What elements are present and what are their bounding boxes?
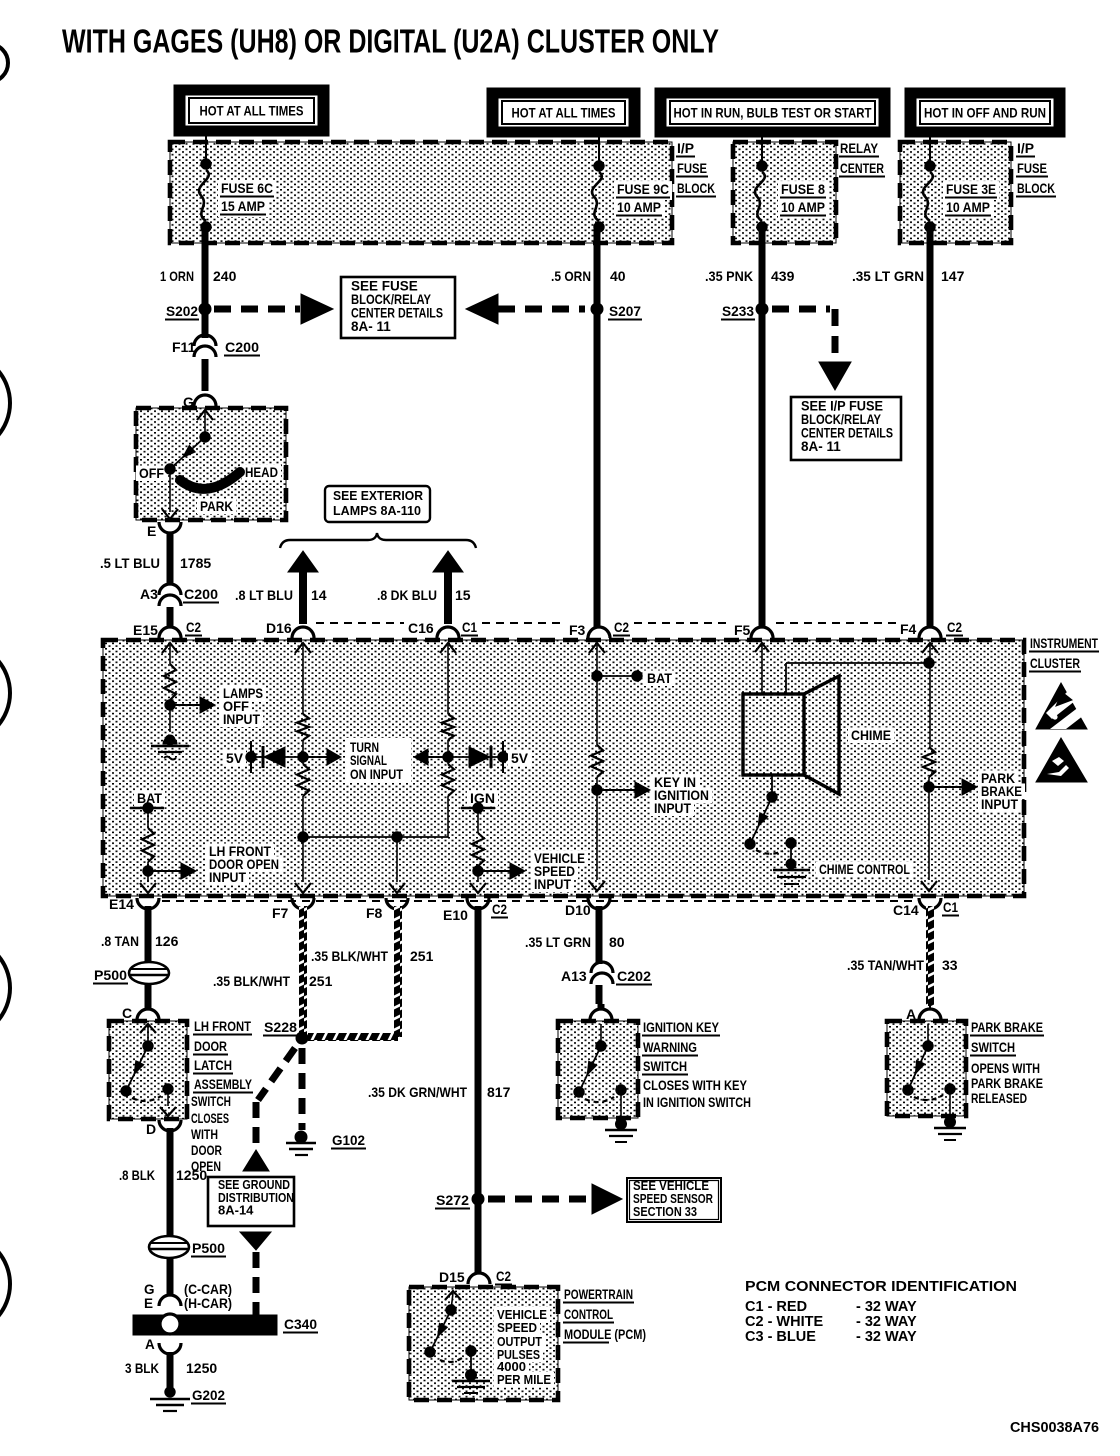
5V node right: [498, 752, 508, 762]
svg-text:- 32 WAY: - 32 WAY: [856, 1299, 917, 1315]
svg-text:OPENS WITH: OPENS WITH: [971, 1061, 1040, 1076]
svg-text:LH FRONT: LH FRONT: [194, 1019, 252, 1034]
wire into fuse 3E: [929, 137, 931, 166]
wire into fuse 9C: [598, 137, 600, 166]
ignition key contacts: [600, 1024, 602, 1046]
svg-text:C1 - RED: C1 - RED: [745, 1299, 807, 1315]
dashed arrow S207 to ref box: [466, 294, 498, 324]
resistor E10 branch: [472, 833, 484, 866]
svg-text:10 AMP: 10 AMP: [946, 199, 990, 215]
svg-text:MODULE (PCM): MODULE (PCM): [564, 1327, 646, 1342]
svg-text:1250: 1250: [176, 1167, 207, 1183]
label CHIME CONTROL: [816, 861, 913, 877]
svg-text:1 ORN: 1 ORN: [160, 268, 194, 284]
wire E to C200 A3: [167, 532, 174, 585]
svg-text:G: G: [144, 1282, 155, 1297]
svg-text:C200: C200: [225, 339, 259, 355]
svg-text:.35 PNK: .35 PNK: [705, 268, 753, 284]
svg-text:IN IGNITION SWITCH: IN IGNITION SWITCH: [643, 1095, 751, 1110]
svg-text:HOT IN OFF AND RUN: HOT IN OFF AND RUN: [924, 105, 1046, 121]
D16 5V junction: [298, 752, 308, 762]
svg-text:C1: C1: [462, 619, 477, 635]
svg-text:RELEASED: RELEASED: [971, 1091, 1027, 1106]
wire to E10: [477, 871, 479, 882]
svg-text:C340: C340: [284, 1316, 317, 1332]
svg-text:33: 33: [942, 957, 958, 973]
svg-text:SECTION 33: SECTION 33: [633, 1205, 697, 1219]
svg-text:.8 TAN: .8 TAN: [101, 933, 139, 949]
svg-text:D16: D16: [266, 620, 292, 636]
resistor D16 lower: [302, 757, 304, 764]
label LAMPS OFF INPUT: [220, 685, 266, 701]
svg-text:F7: F7: [272, 905, 289, 921]
thin dashed connector line C1-F3: [482, 622, 564, 624]
ESD warning symbol 1: [1036, 683, 1087, 729]
svg-text:F3: F3: [569, 622, 586, 638]
svg-text:PARK: PARK: [200, 499, 233, 514]
PCM internal ground: [466, 1370, 477, 1381]
connector C340 pass-through ring: [160, 1314, 180, 1334]
resistor F3: [591, 745, 603, 777]
svg-text:439: 439: [771, 268, 795, 284]
svg-text:P500: P500: [94, 967, 127, 983]
svg-text:251: 251: [309, 973, 333, 989]
svg-text:.8 BLK: .8 BLK: [119, 1167, 155, 1183]
svg-text:PARK BRAKE: PARK BRAKE: [971, 1076, 1043, 1091]
LH door latch switch box: [109, 1021, 187, 1119]
svg-text:F11: F11: [172, 339, 196, 355]
svg-text:SEE VEHICLE: SEE VEHICLE: [633, 1179, 709, 1193]
dashed arrow S272 to ref box: [488, 1196, 588, 1203]
ESD warning symbol 2: [1036, 738, 1087, 782]
up arrow wire .8 DK BLU 15: [444, 570, 452, 624]
svg-text:CLOSES WITH KEY: CLOSES WITH KEY: [643, 1078, 747, 1093]
svg-text:G102: G102: [332, 1132, 365, 1148]
svg-text:D: D: [146, 1121, 156, 1137]
svg-text:DOOR: DOOR: [194, 1039, 227, 1054]
svg-text:C2: C2: [186, 619, 201, 635]
svg-text:E10: E10: [443, 907, 468, 923]
BAT node F3: [592, 671, 602, 681]
svg-text:CENTER: CENTER: [840, 161, 884, 176]
wire fuse 3E down to F4: [927, 227, 934, 622]
svg-text:126: 126: [155, 933, 179, 949]
vehicle speed node: [473, 866, 483, 876]
svg-text:.8 DK BLU: .8 DK BLU: [377, 587, 437, 603]
svg-text:CLOSES: CLOSES: [191, 1111, 229, 1126]
svg-text:40: 40: [610, 268, 626, 284]
svg-text:E: E: [147, 523, 156, 539]
power label HOT AT ALL TIMES (left): [174, 85, 329, 136]
label CHIME: [848, 727, 894, 743]
svg-text:LATCH: LATCH: [194, 1058, 232, 1073]
svg-text:INPUT: INPUT: [223, 712, 261, 727]
svg-text:A: A: [145, 1337, 155, 1352]
wire S207 to F3: [594, 309, 601, 628]
chime control switch: [771, 775, 773, 797]
svg-text:S202: S202: [166, 303, 198, 319]
svg-text:D15: D15: [439, 1269, 465, 1285]
svg-text:FUSE 6C: FUSE 6C: [221, 180, 273, 196]
dashed line S228 to ground distribution: [258, 1048, 295, 1100]
svg-text:POWERTRAIN: POWERTRAIN: [564, 1287, 633, 1302]
brace over exterior lamp wires: [280, 533, 476, 548]
IGN feed: [467, 790, 498, 806]
ref box SEE FUSE BLOCK/RELAY CENTER DETAILS 8A-11: [341, 277, 455, 338]
arrow into C16 node: [426, 756, 446, 758]
junction bus D16-F8-C16: [303, 836, 448, 838]
ref box SEE EXTERIOR LAMPS 8A-110: [325, 486, 430, 522]
svg-text:F8: F8: [366, 905, 383, 921]
svg-text:CHIME: CHIME: [851, 728, 891, 743]
headlight switch positions OFF HEAD PARK: [136, 465, 167, 481]
dashed arrow S233 right and down: [772, 306, 830, 313]
svg-text:HOT AT ALL TIMES: HOT AT ALL TIMES: [512, 105, 616, 121]
svg-text:15 AMP: 15 AMP: [221, 198, 265, 214]
svg-text:PCM CONNECTOR IDENTIFICATION: PCM CONNECTOR IDENTIFICATION: [745, 1279, 1017, 1295]
fuse 6C: [201, 159, 211, 169]
svg-text:WARNING: WARNING: [643, 1040, 697, 1055]
svg-text:E: E: [144, 1296, 153, 1311]
svg-text:3 BLK: 3 BLK: [125, 1360, 159, 1376]
ground below ignition switch: [616, 1119, 627, 1130]
diode right: [469, 747, 490, 767]
connector P500 lower: [149, 1236, 189, 1258]
thin dashed connector line F3-F5: [634, 622, 730, 624]
fuse 3E: [925, 161, 935, 171]
svg-text:I/P: I/P: [677, 141, 694, 156]
wire to E14: [147, 871, 149, 882]
svg-text:A3: A3: [140, 586, 158, 602]
arrow out of ground distribution box: [240, 1232, 271, 1250]
power label HOT IN OFF AND RUN: [905, 88, 1065, 137]
instrument cluster box: [103, 640, 1024, 896]
resistor LH door branch: [142, 828, 154, 862]
svg-text:.5 LT BLU: .5 LT BLU: [100, 555, 160, 571]
C16 branch top: [440, 643, 456, 653]
svg-text:INPUT: INPUT: [534, 877, 572, 892]
up arrow wire .8 LT BLU 14: [299, 570, 307, 624]
svg-text:INSTRUMENT: INSTRUMENT: [1030, 636, 1099, 651]
svg-text:C2: C2: [496, 1268, 511, 1284]
svg-text:C3 - BLUE: C3 - BLUE: [745, 1329, 816, 1345]
svg-text:FUSE: FUSE: [1017, 161, 1047, 176]
svg-text:C200: C200: [184, 586, 218, 602]
svg-text:E15: E15: [133, 622, 158, 638]
svg-text:SPEED: SPEED: [497, 1320, 537, 1335]
svg-text:SEE EXTERIOR: SEE EXTERIOR: [333, 488, 424, 503]
5V node left: [223, 750, 246, 766]
svg-text:LAMPS 8A-110: LAMPS 8A-110: [333, 503, 421, 518]
svg-text:HOT AT ALL TIMES: HOT AT ALL TIMES: [200, 103, 304, 119]
label VEHICLE SPEED OUTPUT PULSES 4000 PER MILE: [494, 1307, 550, 1322]
svg-text:.8 LT BLU: .8 LT BLU: [235, 587, 293, 603]
ref box SEE I/P FUSE BLOCK/RELAY CENTER DETAILS 8A-11: [791, 397, 901, 460]
svg-text:CLUSTER: CLUSTER: [1030, 656, 1080, 671]
svg-text:SWITCH: SWITCH: [971, 1040, 1015, 1055]
svg-text:14: 14: [311, 587, 327, 603]
svg-text:817: 817: [487, 1084, 511, 1100]
LH front door open node: [143, 866, 153, 876]
svg-text:INPUT: INPUT: [209, 870, 247, 885]
park brake switch box: [887, 1021, 966, 1116]
striped wire C14 to park brake: [926, 906, 934, 1006]
diode left: [262, 746, 265, 768]
wire into fuse 6C: [205, 136, 207, 164]
arrow into ground distribution box: [243, 1150, 269, 1171]
svg-text:BLOCK: BLOCK: [677, 181, 715, 196]
svg-text:10 AMP: 10 AMP: [617, 199, 661, 215]
wire to D10: [596, 790, 598, 880]
svg-text:15: 15: [455, 587, 471, 603]
svg-text:IGNITION KEY: IGNITION KEY: [643, 1020, 719, 1035]
label VEHICLE SPEED INPUT: [531, 850, 588, 866]
svg-text:(C-CAR): (C-CAR): [184, 1282, 232, 1297]
door latch contacts: [140, 1024, 156, 1033]
svg-text:- 32 WAY: - 32 WAY: [856, 1329, 917, 1345]
svg-text:PARK BRAKE: PARK BRAKE: [971, 1020, 1043, 1035]
dashed line to C340: [253, 1252, 260, 1315]
binder hole 2: [0, 353, 10, 453]
svg-text:SWITCH: SWITCH: [191, 1094, 231, 1109]
svg-text:.5 ORN: .5 ORN: [551, 268, 591, 284]
svg-text:C2: C2: [492, 901, 507, 917]
svg-text:S272: S272: [436, 1192, 469, 1208]
dashed arrow S202 to ref box: [214, 306, 300, 313]
binder hole 3: [0, 643, 10, 743]
wire fuse 9C to S207: [594, 227, 601, 309]
chime speaker: [743, 694, 804, 775]
ground below park brake switch: [945, 1117, 956, 1128]
svg-text:ON INPUT: ON INPUT: [350, 767, 404, 782]
headlight switch contacts: [197, 410, 213, 420]
binder hole 5: [0, 1234, 10, 1334]
park brake contacts: [927, 1024, 929, 1046]
wire S233 to F5: [759, 309, 766, 628]
dashed line S228 to G102: [299, 1048, 306, 1130]
svg-text:E14: E14: [109, 896, 134, 912]
fuse 9C: [594, 161, 604, 171]
ground G102: [295, 1131, 307, 1143]
svg-text:5V: 5V: [511, 751, 528, 766]
ground lamps off: [163, 737, 177, 744]
svg-text:OFF: OFF: [139, 466, 164, 481]
striped wire F7 to S228: [299, 906, 307, 1035]
svg-text:DOOR: DOOR: [191, 1143, 222, 1158]
wire fuse 8 to S233: [759, 227, 766, 309]
svg-text:WITH GAGES (UH8) OR DIGITAL (U: WITH GAGES (UH8) OR DIGITAL (U2A) CLUSTE…: [62, 23, 719, 60]
resistor C16 lower: [447, 757, 449, 764]
power label HOT IN RUN BULB TEST OR START: [655, 88, 890, 137]
svg-text:CHIME CONTROL: CHIME CONTROL: [819, 862, 910, 877]
svg-text:D10: D10: [565, 902, 591, 918]
connector C200 F11: [202, 309, 209, 338]
PCM vehicle speed switch: [445, 1291, 461, 1300]
resistor C16 upper: [442, 714, 454, 740]
binder hole top-left: [0, 44, 8, 82]
svg-text:P500: P500: [192, 1240, 225, 1256]
svg-text:C2: C2: [614, 619, 629, 635]
ref box SEE VEHICLE SPEED SENSOR SECTION 33: [627, 1178, 721, 1222]
relay center box: [733, 142, 836, 243]
svg-text:8A- 11: 8A- 11: [351, 319, 391, 334]
key in ignition node: [592, 785, 602, 795]
svg-text:PER MILE: PER MILE: [497, 1372, 551, 1387]
power label HOT AT ALL TIMES (mid): [487, 88, 640, 137]
svg-text:147: 147: [941, 268, 965, 284]
ground chime control: [786, 859, 796, 869]
striped wire F8 to S228: [394, 906, 402, 1037]
svg-text:HOT IN RUN, BULB TEST OR START: HOT IN RUN, BULB TEST OR START: [674, 105, 872, 121]
lamps off input branch: [162, 643, 178, 653]
I/P fuse block box (left): [170, 142, 672, 243]
svg-text:5V: 5V: [226, 751, 243, 766]
svg-text:.35 LT GRN: .35 LT GRN: [852, 268, 924, 284]
D16 branch top: [295, 643, 311, 653]
svg-text:(H-CAR): (H-CAR): [184, 1296, 232, 1311]
thin dashed connector line bottom: [162, 900, 916, 902]
svg-text:FUSE 8: FUSE 8: [781, 181, 825, 197]
svg-text:.35 TAN/WHT: .35 TAN/WHT: [847, 957, 924, 973]
label PARK BRAKE INPUT: [978, 770, 1018, 786]
BAT feed left: [134, 790, 165, 806]
svg-text:S228: S228: [264, 1019, 297, 1035]
ground G202: [165, 1387, 175, 1397]
headlight switch box: [136, 408, 286, 520]
svg-text:A13: A13: [561, 968, 587, 984]
svg-text:8A- 11: 8A- 11: [801, 439, 841, 454]
svg-text:G202: G202: [192, 1387, 225, 1403]
PCM box: [409, 1287, 558, 1400]
F5 branch top: [755, 643, 769, 652]
svg-text:BLOCK: BLOCK: [1017, 181, 1055, 196]
svg-text:FUSE: FUSE: [677, 161, 707, 176]
thin dashed connector line F5-F4: [776, 622, 896, 624]
svg-text:SIGNAL: SIGNAL: [350, 753, 387, 768]
svg-text:WITH: WITH: [191, 1127, 218, 1142]
svg-text:240: 240: [213, 268, 237, 284]
svg-text:SWITCH: SWITCH: [643, 1059, 687, 1074]
label KEY IN IGNITION INPUT: [651, 774, 699, 790]
svg-text:INPUT: INPUT: [981, 797, 1019, 812]
svg-text:F4: F4: [900, 621, 917, 637]
svg-text:C16: C16: [408, 620, 434, 636]
binder hole 4: [0, 938, 10, 1038]
fuse 8: [757, 161, 767, 171]
svg-text:BAT: BAT: [647, 671, 673, 686]
svg-text:C2: C2: [947, 619, 962, 635]
svg-text:1785: 1785: [180, 555, 211, 571]
svg-text:- 32 WAY: - 32 WAY: [856, 1314, 917, 1330]
svg-text:ASSEMBLY: ASSEMBLY: [194, 1077, 252, 1092]
svg-text:RELAY: RELAY: [840, 141, 878, 156]
label LH FRONT DOOR OPEN INPUT: [206, 843, 274, 859]
svg-text:.35 BLK/WHT: .35 BLK/WHT: [213, 973, 290, 989]
I/P fuse block box (right): [900, 142, 1011, 243]
svg-text:1250: 1250: [186, 1360, 217, 1376]
svg-text:IGN: IGN: [470, 791, 495, 806]
ignition key switch box: [558, 1021, 638, 1118]
wire fuse 6C to S202: [202, 227, 209, 309]
C16 5V junction: [443, 752, 453, 762]
svg-text:251: 251: [410, 948, 434, 964]
svg-text:FUSE 9C: FUSE 9C: [617, 181, 669, 197]
wire to F8: [396, 837, 398, 882]
wire into fuse 8: [761, 137, 763, 166]
svg-text:S207: S207: [609, 303, 641, 319]
thin dashed connector line D16-C16: [316, 622, 404, 624]
svg-text:C2 - WHITE: C2 - WHITE: [745, 1314, 823, 1330]
svg-text:CONTROL: CONTROL: [564, 1307, 613, 1322]
resistor D16 upper: [297, 714, 309, 740]
svg-text:F5: F5: [734, 622, 751, 638]
resistor F4: [923, 747, 935, 777]
svg-text:S233: S233: [722, 303, 754, 319]
F3 branch top: [589, 643, 605, 653]
terminal top ignition key box: [590, 1009, 612, 1020]
svg-text:I/P: I/P: [1017, 141, 1034, 156]
svg-text:80: 80: [609, 934, 625, 950]
ref box SEE GROUND DISTRIBUTION 8A-14: [208, 1177, 294, 1226]
svg-text:.35 DK GRN/WHT: .35 DK GRN/WHT: [368, 1084, 467, 1100]
park brake node: [924, 782, 934, 792]
svg-text:10 AMP: 10 AMP: [781, 199, 825, 215]
connector C200 A3: [159, 584, 181, 595]
svg-text:.35 LT GRN: .35 LT GRN: [525, 934, 591, 950]
svg-text:CHS0038A76: CHS0038A76: [1010, 1420, 1099, 1436]
svg-text:SPEED SENSOR: SPEED SENSOR: [633, 1192, 713, 1206]
splice S207: [591, 303, 603, 315]
svg-text:.35 BLK/WHT: .35 BLK/WHT: [311, 948, 388, 964]
svg-text:C14: C14: [893, 902, 919, 918]
svg-text:FUSE 3E: FUSE 3E: [946, 181, 996, 197]
wire to F7: [302, 837, 304, 882]
label TURN SIGNAL ON INPUT: [345, 738, 411, 783]
svg-text:C: C: [122, 1005, 132, 1021]
svg-text:INPUT: INPUT: [654, 801, 692, 816]
wire to C14: [928, 787, 930, 880]
svg-text:HEAD: HEAD: [245, 465, 278, 480]
svg-text:8A-14: 8A-14: [218, 1203, 254, 1218]
svg-text:C202: C202: [617, 968, 651, 984]
svg-text:C1: C1: [943, 899, 958, 915]
connector C340 bar: [133, 1315, 277, 1335]
chime feed from F4: [785, 663, 787, 694]
F4 branch top: [922, 643, 938, 653]
